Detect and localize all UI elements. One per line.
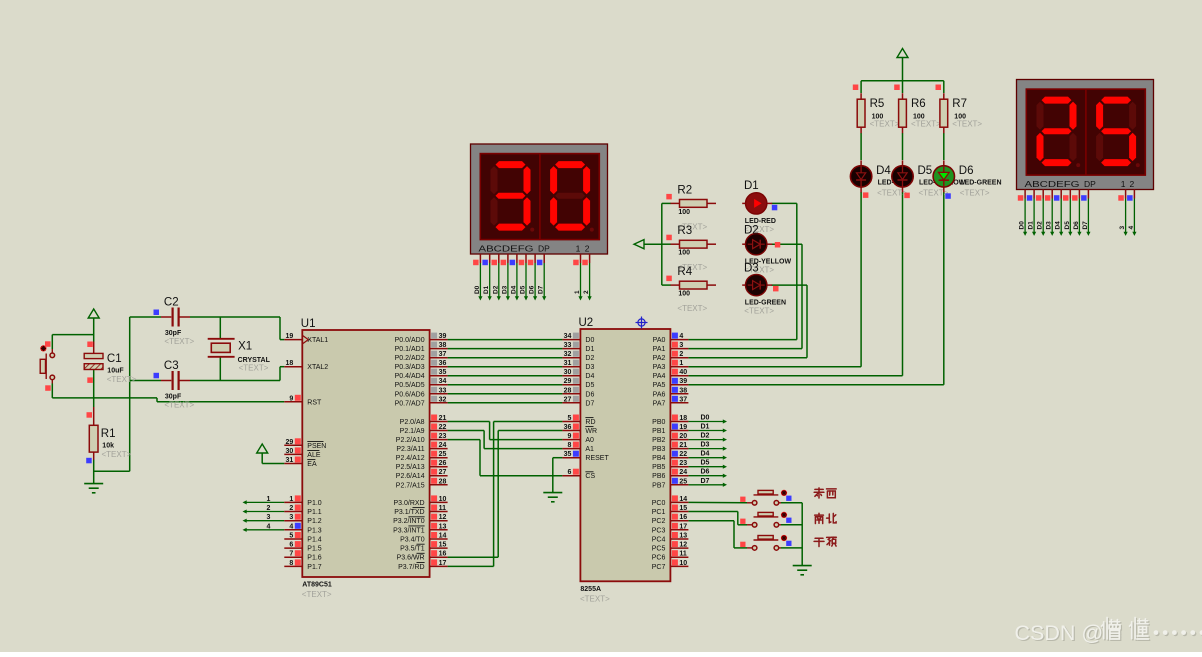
svg-text:D3: D3: [501, 285, 508, 294]
svg-text:2: 2: [583, 290, 590, 294]
svg-text:P0.1/AD1: P0.1/AD1: [395, 346, 425, 353]
svg-text:10uF: 10uF: [107, 368, 124, 375]
svg-text:30pF: 30pF: [165, 330, 182, 337]
U1 right pins with numbers: [430, 333, 448, 567]
svg-text:28: 28: [564, 387, 572, 394]
svg-text:D7: D7: [701, 478, 710, 485]
svg-text:D3: D3: [744, 262, 759, 274]
svg-text:WR: WR: [585, 428, 597, 435]
svg-text:10: 10: [439, 496, 447, 503]
svg-text:ABCDEFG: ABCDEFG: [1025, 179, 1080, 189]
svg-text:P3.3/INT1: P3.3/INT1: [393, 527, 425, 534]
svg-text:12: 12: [679, 542, 687, 549]
svg-text:1: 1: [679, 360, 683, 367]
svg-text:D2: D2: [585, 355, 594, 362]
wire PC1 to button SW2: [688, 512, 747, 525]
svg-text:D5: D5: [585, 382, 594, 389]
svg-text:16: 16: [679, 514, 687, 521]
svg-text:PC4: PC4: [652, 537, 666, 544]
svg-text:21: 21: [679, 442, 687, 449]
svg-text:D2: D2: [701, 433, 710, 440]
svg-text:24: 24: [439, 442, 447, 449]
U2 right pins with numbers: [670, 333, 688, 567]
op-amp U2 8255A peripheral body: [580, 329, 670, 581]
svg-text:PB0: PB0: [652, 419, 665, 426]
ground at R1: [84, 484, 103, 493]
svg-text:R1: R1: [101, 428, 116, 440]
svg-text:P1.1: P1.1: [307, 509, 322, 516]
svg-text:30pF: 30pF: [165, 394, 182, 401]
terminal arrow left of R3: [634, 240, 644, 249]
svg-text:C3: C3: [164, 360, 179, 372]
svg-text:P2.2/A10: P2.2/A10: [396, 437, 425, 444]
svg-text:PC1: PC1: [652, 509, 666, 516]
svg-text:<TEXT>: <TEXT>: [677, 304, 707, 313]
svg-text:PA6: PA6: [653, 391, 666, 398]
svg-text:P0.0/AD0: P0.0/AD0: [395, 337, 425, 344]
svg-text:P2.1/A9: P2.1/A9: [400, 428, 425, 435]
capacitor C3: [154, 371, 191, 390]
power arrow above R5/R6/R7: [897, 49, 908, 81]
svg-text:P0.5/AD5: P0.5/AD5: [395, 382, 425, 389]
U1 pin names: [307, 337, 424, 571]
wire power rail to R5 R6 R7: [861, 81, 944, 93]
svg-text:1: 1: [267, 496, 271, 503]
svg-text:D1: D1: [701, 424, 710, 431]
wire PA5 to D6: [688, 192, 943, 385]
svg-text:D0: D0: [585, 337, 594, 344]
7-segment display DISP2 showing 25: [1017, 80, 1154, 190]
wire R2/R3/R4 common left branch: [644, 203, 671, 285]
svg-text:35: 35: [439, 369, 447, 376]
DISP1 segment pin wires with net labels D0-D7: [473, 254, 546, 301]
resistor R1: [86, 407, 98, 463]
svg-text:R2: R2: [677, 184, 692, 196]
svg-text:31: 31: [286, 457, 294, 464]
svg-text:27: 27: [439, 469, 447, 476]
wire P2.2/A10 to CS: [448, 440, 563, 476]
wire PB4 terminal net D4: [688, 456, 727, 460]
svg-text:<TEXT>: <TEXT>: [952, 120, 982, 129]
svg-text:39: 39: [439, 333, 447, 340]
svg-text:20: 20: [679, 433, 687, 440]
wire P2.1/A9 to A1: [448, 431, 563, 449]
wire P2.0/A8 to A0: [448, 422, 563, 440]
DISP1 digit pin wires with net labels 1 2: [573, 254, 592, 301]
svg-text:D6: D6: [959, 165, 974, 177]
svg-text:2: 2: [289, 505, 293, 512]
svg-text:31: 31: [564, 360, 572, 367]
svg-text:P1.3: P1.3: [307, 527, 322, 534]
svg-text:15: 15: [439, 542, 447, 549]
svg-text:C1: C1: [107, 353, 122, 365]
svg-text:D7: D7: [1082, 221, 1089, 230]
svg-text:D0: D0: [474, 285, 481, 294]
LED D2: [742, 234, 772, 255]
svg-text:LED-GREEN: LED-GREEN: [960, 180, 1001, 187]
U2 pin names: [585, 337, 665, 571]
svg-text:39: 39: [679, 378, 687, 385]
svg-text:10k: 10k: [102, 443, 114, 450]
svg-text:35: 35: [564, 451, 572, 458]
svg-text:AT89C51: AT89C51: [302, 582, 332, 589]
wire P1.3 terminal net 4: [243, 528, 285, 532]
wire P3.7/RD to RD: [448, 422, 563, 567]
wire power to C1 top / button top: [52, 319, 93, 350]
pushbutton reset switch: [40, 341, 54, 391]
pushbutton SW1: [740, 490, 791, 505]
svg-text:D7: D7: [585, 400, 594, 407]
DISP2 segment pin wires with net labels D0-D7: [1018, 190, 1091, 236]
LED D6: [933, 160, 954, 192]
svg-text:DP: DP: [538, 244, 550, 254]
resistor R3: [671, 240, 717, 248]
wire D2 to PA1: [688, 244, 802, 348]
wire C2 net to XTAL1: [130, 317, 285, 340]
svg-text:P2.3/A11: P2.3/A11: [396, 446, 424, 453]
wire R7 to D6: [943, 133, 945, 160]
wire R1 bottom to ground: [93, 460, 95, 484]
svg-text:PC6: PC6: [652, 555, 666, 562]
svg-text:29: 29: [564, 378, 572, 385]
svg-text:D5: D5: [1064, 221, 1071, 230]
svg-text:PA4: PA4: [653, 373, 666, 380]
svg-text:4: 4: [267, 523, 271, 530]
origin marker near U2: [636, 317, 648, 329]
svg-text:<TEXT>: <TEXT>: [102, 450, 132, 459]
svg-text:9: 9: [567, 433, 571, 440]
svg-text:D7: D7: [538, 285, 545, 294]
wire PA4 to D5: [688, 192, 902, 376]
wire P3.6/WR to WR: [448, 431, 563, 558]
svg-text:D2: D2: [1037, 221, 1044, 230]
svg-text:<TEXT>: <TEXT>: [911, 120, 941, 129]
svg-text:PB1: PB1: [652, 428, 665, 435]
svg-text:P3.0/RXD: P3.0/RXD: [393, 500, 424, 507]
svg-text:33: 33: [439, 387, 447, 394]
svg-text:PB7: PB7: [652, 482, 665, 489]
wire R5 to D4: [860, 133, 862, 160]
net label 东西: [814, 488, 824, 498]
svg-text:P2.0/A8: P2.0/A8: [400, 419, 425, 426]
svg-text:<TEXT>: <TEXT>: [239, 364, 269, 373]
svg-text:R5: R5: [870, 98, 885, 110]
svg-text:PB2: PB2: [652, 437, 665, 444]
svg-text:XTAL2: XTAL2: [307, 364, 328, 371]
svg-text:32: 32: [439, 396, 447, 403]
svg-text:U2: U2: [579, 317, 594, 329]
svg-text:R3: R3: [677, 225, 692, 237]
svg-text:P3.2/INT0: P3.2/INT0: [393, 518, 425, 525]
wire P0 to D data bus: [448, 340, 563, 403]
wire P1.1 terminal net 2: [243, 509, 285, 513]
svg-text:17: 17: [439, 560, 447, 567]
svg-text:2: 2: [267, 505, 271, 512]
capacitor C1: [84, 342, 103, 383]
capacitor C2: [154, 308, 191, 327]
svg-text:8: 8: [567, 442, 571, 449]
svg-text:22: 22: [679, 451, 687, 458]
wire buttons common to ground: [781, 503, 802, 566]
svg-text:D1: D1: [483, 285, 490, 294]
svg-text:R6: R6: [911, 98, 926, 110]
svg-text:LED-GREEN: LED-GREEN: [745, 300, 786, 307]
svg-text:P3.4/T0: P3.4/T0: [400, 537, 425, 544]
svg-text:19: 19: [679, 424, 687, 431]
svg-text:100: 100: [678, 291, 690, 298]
wire PB7 terminal net D7: [688, 483, 727, 487]
svg-text:2: 2: [1130, 179, 1135, 189]
svg-text:11: 11: [679, 551, 687, 558]
svg-text:2: 2: [679, 351, 683, 358]
svg-text:100: 100: [678, 209, 690, 216]
svg-text:13: 13: [439, 523, 447, 530]
svg-text:P1.7: P1.7: [307, 564, 322, 571]
svg-text:25: 25: [679, 478, 687, 485]
ground at buttons: [793, 566, 812, 575]
wire PB1 terminal net D1: [688, 428, 727, 432]
svg-text:19: 19: [286, 333, 294, 340]
svg-text:R4: R4: [677, 266, 692, 278]
wire P1.0 terminal net 1: [243, 500, 285, 504]
wire R6 to D5: [902, 133, 904, 160]
svg-text:18: 18: [679, 415, 687, 422]
svg-text:D3: D3: [1046, 221, 1053, 230]
svg-text:C2: C2: [164, 297, 179, 309]
svg-text:14: 14: [679, 496, 687, 503]
svg-text:17: 17: [679, 523, 687, 530]
svg-text:D5: D5: [520, 285, 527, 294]
svg-text:<TEXT>: <TEXT>: [164, 337, 194, 346]
svg-text:D5: D5: [918, 165, 933, 177]
svg-text:37: 37: [679, 396, 687, 403]
svg-text:D1: D1: [1028, 221, 1035, 230]
wire PB5 terminal net D5: [688, 465, 727, 469]
wire PC0 to button SW1: [688, 501, 747, 503]
svg-text:29: 29: [286, 439, 294, 446]
wire C3 net to XTAL2: [130, 367, 285, 381]
power arrow at EA: [257, 444, 285, 464]
svg-text:P2.7/A15: P2.7/A15: [396, 482, 425, 489]
svg-text:PA1: PA1: [653, 346, 666, 353]
svg-text:DP: DP: [1084, 179, 1096, 189]
wire D1 to PA0: [688, 203, 796, 339]
svg-text:4: 4: [1128, 226, 1135, 230]
wire PB0 terminal net D0: [688, 419, 727, 423]
svg-text:24: 24: [679, 469, 687, 476]
svg-text:P0.2/AD2: P0.2/AD2: [395, 355, 425, 362]
svg-text:CSDN @: CSDN @: [1015, 621, 1104, 645]
svg-text:23: 23: [679, 460, 687, 467]
svg-text:3: 3: [289, 514, 293, 521]
net label 干预: [814, 538, 824, 546]
ground at RESET: [543, 493, 562, 502]
svg-text:D1: D1: [744, 180, 759, 192]
DISP2 digit pin wires with net labels 3 4: [1118, 190, 1136, 236]
svg-text:1: 1: [1121, 179, 1126, 189]
svg-text:<TEXT>: <TEXT>: [870, 120, 900, 129]
svg-text:100: 100: [678, 250, 690, 257]
svg-text:D0: D0: [1019, 221, 1026, 230]
svg-text:D2: D2: [744, 225, 759, 237]
svg-text:36: 36: [439, 360, 447, 367]
svg-text:PC0: PC0: [652, 500, 666, 507]
svg-text:P3.5/T1: P3.5/T1: [400, 546, 425, 553]
svg-text:ABCDEFG: ABCDEFG: [479, 244, 534, 254]
svg-text:11: 11: [439, 505, 447, 512]
svg-text:PA5: PA5: [653, 382, 666, 389]
svg-text:7: 7: [289, 551, 293, 558]
wire PB6 terminal net D6: [688, 474, 727, 478]
svg-text:1: 1: [289, 496, 293, 503]
svg-text:<TEXT>: <TEXT>: [744, 307, 774, 316]
wire PA3 to D4: [688, 192, 861, 367]
svg-text:P1.5: P1.5: [307, 546, 322, 553]
svg-text:16: 16: [439, 551, 447, 558]
svg-text:38: 38: [679, 387, 687, 394]
svg-text:6: 6: [567, 469, 571, 476]
svg-text:RST: RST: [307, 399, 322, 406]
svg-text:32: 32: [564, 351, 572, 358]
svg-text:26: 26: [439, 460, 447, 467]
svg-text:P0.4/AD4: P0.4/AD4: [395, 373, 425, 380]
svg-text:3: 3: [267, 514, 271, 521]
svg-text:21: 21: [439, 415, 447, 422]
svg-text:PSEN: PSEN: [307, 443, 326, 450]
svg-text:<TEXT>: <TEXT>: [302, 590, 332, 599]
crystal X1: [208, 317, 235, 381]
wire reset node to RST pin: [52, 370, 284, 408]
svg-text:4: 4: [679, 333, 683, 340]
svg-text:28: 28: [439, 478, 447, 485]
svg-text:PB5: PB5: [652, 464, 665, 471]
svg-text:PA3: PA3: [653, 364, 666, 371]
svg-text:<TEXT>: <TEXT>: [107, 375, 137, 384]
svg-text:15: 15: [679, 505, 687, 512]
wire P1.2 terminal net 3: [243, 519, 285, 523]
svg-text:12: 12: [439, 514, 447, 521]
LED D5: [892, 160, 913, 192]
svg-text:P0.3/AD3: P0.3/AD3: [395, 364, 425, 371]
resistor R7: [940, 93, 948, 133]
power arrow above C1: [88, 309, 99, 318]
7-segment display DISP1 showing 30: [471, 144, 608, 254]
svg-text:PC2: PC2: [652, 518, 666, 525]
svg-text:ALE: ALE: [307, 452, 321, 459]
svg-text:RESET: RESET: [585, 455, 609, 462]
svg-text:D4: D4: [1055, 221, 1062, 230]
pushbutton SW2: [740, 512, 791, 527]
svg-text:6: 6: [289, 542, 293, 549]
svg-text:22: 22: [439, 424, 447, 431]
svg-text:D4: D4: [876, 165, 891, 177]
svg-text:34: 34: [439, 378, 447, 385]
svg-text:P1.6: P1.6: [307, 555, 322, 562]
svg-text:RD: RD: [585, 419, 595, 426]
LED D1: [742, 193, 772, 214]
svg-text:PA7: PA7: [653, 400, 666, 407]
svg-text:P3.6/WR: P3.6/WR: [397, 555, 425, 562]
svg-text:CS: CS: [585, 473, 595, 480]
svg-text:4: 4: [289, 523, 293, 530]
svg-text:A0: A0: [585, 437, 594, 444]
svg-text:A1: A1: [585, 446, 594, 453]
svg-text:D2: D2: [492, 285, 499, 294]
svg-text:P2.4/A12: P2.4/A12: [396, 455, 425, 462]
svg-text:U1: U1: [301, 318, 316, 330]
svg-text:PC5: PC5: [652, 546, 666, 553]
wire RESET to ground: [553, 458, 563, 493]
svg-text:R7: R7: [952, 98, 967, 110]
svg-text:36: 36: [564, 424, 572, 431]
op-amp U1 AT89C51 microcontroller body: [302, 330, 429, 577]
svg-text:18: 18: [286, 360, 294, 367]
svg-text:D0: D0: [701, 415, 710, 422]
svg-text:37: 37: [439, 351, 447, 358]
svg-text:3: 3: [1119, 226, 1126, 230]
svg-text:<TEXT>: <TEXT>: [164, 401, 194, 410]
svg-text:34: 34: [564, 333, 572, 340]
wire D3 to PA2: [688, 285, 807, 358]
svg-text:D1: D1: [585, 346, 594, 353]
svg-text:PB3: PB3: [652, 446, 665, 453]
svg-text:D3: D3: [701, 442, 710, 449]
wire PB3 terminal net D3: [688, 447, 727, 451]
svg-text:D4: D4: [585, 373, 594, 380]
svg-text:30: 30: [564, 369, 572, 376]
U2 left pins with numbers: [562, 333, 580, 477]
svg-text:<TEXT>: <TEXT>: [960, 189, 990, 198]
svg-text:P2.6/A14: P2.6/A14: [396, 473, 425, 480]
svg-text:D6: D6: [529, 285, 536, 294]
svg-text:PB6: PB6: [652, 473, 665, 480]
svg-text:D3: D3: [585, 364, 594, 371]
resistor R6: [899, 93, 907, 133]
svg-text:D4: D4: [701, 451, 710, 458]
svg-text:PC3: PC3: [652, 527, 666, 534]
pushbutton SW3: [740, 535, 791, 550]
svg-text:D6: D6: [1073, 221, 1080, 230]
LED D4: [850, 160, 871, 192]
resistor R5: [857, 93, 865, 133]
svg-text:38: 38: [439, 342, 447, 349]
svg-text:PA2: PA2: [653, 355, 666, 362]
svg-text:2: 2: [585, 244, 590, 254]
svg-text:EA: EA: [307, 461, 317, 468]
svg-text:D6: D6: [585, 391, 594, 398]
svg-text:P3.1/TXD: P3.1/TXD: [394, 509, 424, 516]
svg-text:23: 23: [439, 433, 447, 440]
svg-text:P2.5/A13: P2.5/A13: [396, 464, 425, 471]
svg-text:PC7: PC7: [652, 564, 666, 571]
svg-text:D6: D6: [701, 469, 710, 476]
svg-text:25: 25: [439, 451, 447, 458]
svg-text:10: 10: [679, 560, 687, 567]
svg-text:1: 1: [574, 290, 581, 294]
svg-text:PA0: PA0: [653, 337, 666, 344]
svg-text:<TEXT>: <TEXT>: [580, 595, 610, 604]
svg-text:1: 1: [576, 244, 581, 254]
svg-text:P1.0: P1.0: [307, 500, 322, 507]
wire PB2 terminal net D2: [688, 437, 727, 441]
svg-text:P0.6/AD6: P0.6/AD6: [395, 391, 425, 398]
svg-text:3: 3: [679, 342, 683, 349]
svg-text:5: 5: [289, 533, 293, 540]
svg-text:27: 27: [564, 396, 572, 403]
svg-text:P1.4: P1.4: [307, 537, 322, 544]
svg-text:13: 13: [679, 533, 687, 540]
svg-text:40: 40: [679, 369, 687, 376]
